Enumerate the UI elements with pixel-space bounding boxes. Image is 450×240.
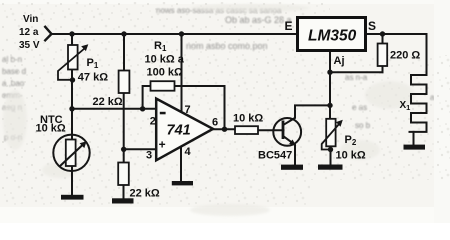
svg-text:6: 6 — [212, 117, 218, 129]
potentiometer P2 body — [326, 119, 335, 147]
wire 22k bottom to node pin3 and 22k lower — [123, 93, 125, 163]
wire pin7 to rail — [181, 34, 183, 113]
junction NTC / pin 2 — [69, 106, 74, 111]
svg-text:2: 2 — [150, 116, 156, 128]
svg-text:12 a: 12 a — [19, 27, 39, 38]
heating element X1 meander — [410, 75, 427, 132]
junction rail / pin 7 — [179, 31, 184, 36]
wire 220 bottom lead — [382, 66, 384, 72]
wire P1 bottom to NTC top — [71, 70, 73, 140]
svg-text:22 kΩ: 22 kΩ — [93, 96, 123, 108]
svg-text:BC547: BC547 — [258, 150, 292, 162]
svg-text:220 Ω: 220 Ω — [390, 50, 420, 62]
ground (op-amp pin4) — [172, 181, 193, 185]
resistor 22k upper body — [119, 71, 130, 94]
wire collector to Aj node — [284, 105, 331, 124]
junction P1 wiper — [70, 77, 75, 82]
wire R1 feedback to output — [175, 86, 225, 129]
wire down to X1 — [426, 34, 428, 75]
potentiometer P1 wiper arrow — [58, 49, 85, 80]
svg-text:4: 4 — [185, 146, 192, 158]
resistor R1 body — [151, 81, 175, 91]
wire pin3 input — [124, 148, 156, 150]
svg-text:+: + — [159, 138, 166, 152]
svg-text:LM350: LM350 — [308, 28, 357, 45]
svg-text:Vin: Vin — [23, 14, 38, 25]
wire P2 bottom to ground — [330, 147, 332, 165]
junction rail / 22k divider — [121, 31, 126, 36]
svg-text:10 kΩ a: 10 kΩ a — [145, 54, 185, 66]
junction R1 left / pin 2 — [140, 106, 145, 111]
wire X1 to ground — [413, 132, 415, 145]
wire top rail right (S to corner) — [366, 33, 427, 35]
svg-text:741: 741 — [167, 122, 191, 138]
svg-text:22 kΩ: 22 kΩ — [130, 188, 160, 200]
svg-text:S: S — [368, 19, 376, 33]
wire 10k to base — [258, 129, 284, 131]
thermistor NTC — [53, 135, 89, 171]
wire pin2 input — [72, 108, 156, 110]
ground (22k divider) — [112, 198, 134, 203]
ground (NTC) — [61, 195, 84, 200]
op-amp U1 741 triangle — [156, 99, 213, 161]
svg-text:Aj: Aj — [334, 55, 345, 67]
regulator LM350 box — [298, 18, 366, 51]
junction rail S / 220 ohm — [380, 31, 385, 36]
wire op-amp output — [212, 128, 235, 130]
junction rail / P1 — [69, 31, 74, 36]
svg-text:47 kΩ: 47 kΩ — [78, 72, 108, 84]
junction Aj / collector — [327, 103, 332, 108]
svg-text:3: 3 — [146, 150, 152, 162]
svg-text:E: E — [285, 19, 293, 33]
wire pin4 to ground — [180, 146, 182, 181]
wire top rail left — [52, 33, 298, 35]
transistor Q1 BC547 — [273, 118, 301, 146]
resistor 220 body — [378, 44, 388, 67]
wire emitter down — [284, 136, 296, 164]
svg-text:10 kΩ: 10 kΩ — [36, 123, 66, 135]
wire NTC bottom to ground — [71, 166, 73, 195]
wire rail to P1 top — [71, 34, 73, 46]
ground (X1) — [404, 145, 426, 150]
svg-text:100 kΩ: 100 kΩ — [147, 67, 184, 79]
potentiometer P2 wiper arrow — [322, 124, 340, 150]
resistor 22k lower body — [118, 163, 129, 186]
svg-text:35 V: 35 V — [19, 40, 40, 51]
wire 220 top lead — [382, 34, 384, 44]
junction Aj / 220 ohm — [327, 70, 332, 75]
svg-text:7: 7 — [185, 104, 191, 116]
ground (P2) — [318, 165, 343, 170]
pin label minus — [160, 112, 166, 115]
wire Aj to 220 bottom — [330, 71, 383, 73]
junction divider / pin 3 — [121, 147, 126, 152]
junction P2 wiper — [328, 147, 333, 152]
potentiometer P1 body — [68, 45, 78, 70]
ground (BC547 emitter) — [281, 165, 303, 170]
wire Aj column — [329, 51, 331, 119]
svg-text:10 kΩ: 10 kΩ — [336, 150, 366, 162]
junction output 6 / feedback — [222, 127, 227, 132]
resistor 10k body — [235, 126, 258, 134]
input connector chevron — [45, 27, 51, 41]
wire 22k lower bottom to ground — [123, 185, 125, 199]
wire rail to 22k top — [123, 34, 125, 71]
svg-text:10 kΩ: 10 kΩ — [233, 113, 263, 125]
wire R1 left lead — [143, 86, 151, 109]
